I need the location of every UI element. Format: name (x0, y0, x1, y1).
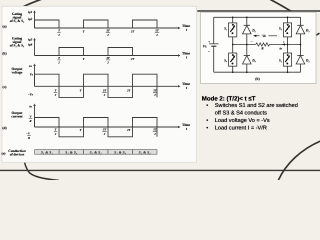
svg-text:T: T (83, 30, 85, 34)
switch S4 (224, 53, 237, 66)
svg-text:•: • (206, 126, 208, 132)
node top rail / S1 branch (232, 17, 234, 19)
node a vo annotation (251, 34, 285, 44)
switch S3 (279, 23, 292, 37)
svg-text:Load current I = -V/R: Load current I = -V/R (215, 125, 267, 132)
svg-text:of S₃ & S₄: of S₃ & S₄ (10, 44, 25, 48)
svg-text:S₃ & S₄: S₃ & S₄ (114, 150, 126, 154)
decorative top-left curve (23, 0, 43, 7)
waveform figure white box (2, 6, 197, 162)
diode D3 (296, 25, 310, 34)
plot d: y-axis (34, 105, 36, 127)
slide background (0, 0, 320, 180)
svg-text:R: R (29, 119, 31, 123)
svg-text:2T: 2T (126, 128, 131, 132)
node mid rail / D3-D2 branch (300, 44, 302, 46)
wire S4 branch (232, 45, 234, 73)
plot a: x-axis (35, 27, 180, 29)
tick labels plot c (54, 88, 157, 97)
svg-text:T: T (80, 128, 82, 132)
node top rail / D1 branch (246, 17, 248, 19)
plot a: y-axis (34, 12, 36, 28)
svg-text:5T: 5T (153, 88, 157, 92)
svg-text:S₁ & S₂: S₁ & S₂ (139, 150, 151, 154)
plot b: x-axis (35, 55, 180, 57)
svg-text:D₄: D₄ (251, 59, 256, 63)
node mid rail / D1-D4 branch (246, 44, 248, 46)
plot b: gating waveform S3S4 (59, 48, 133, 56)
svg-text:T: T (58, 29, 60, 33)
node b (right leg midpoint) (287, 44, 289, 46)
wire mid rail left (233, 44, 256, 46)
switch S1 (224, 23, 237, 37)
axis arrowheads (33, 10, 180, 128)
svg-text:current: current (11, 115, 23, 119)
wire D2 branch (300, 45, 302, 73)
svg-text:•: • (206, 103, 208, 109)
plot c: x-axis (35, 85, 180, 87)
top rule right of figure (197, 10, 320, 12)
svg-text:S₄: S₄ (224, 58, 227, 62)
svg-text:5T: 5T (155, 29, 159, 33)
svg-text:R: R (28, 136, 30, 140)
svg-text:D₂: D₂ (305, 59, 310, 63)
decorative right-edge dash (313, 33, 319, 37)
wire battery top (213, 17, 215, 44)
svg-text:off S3 & S4 conducts: off S3 & S4 conducts (215, 110, 267, 117)
svg-text:D₃: D₃ (305, 29, 310, 33)
-V/R fraction label (26, 132, 31, 141)
wire D4 branch (246, 45, 248, 73)
svg-text:i​g1: i​g1 (28, 10, 33, 14)
svg-text:of devices: of devices (10, 152, 25, 156)
svg-text:Mode 2: (T/2)< t ≤T: Mode 2: (T/2)< t ≤T (202, 96, 256, 103)
tick labels plot a (57, 29, 159, 37)
bottom-right curve (278, 141, 320, 181)
node a (left leg midpoint) (232, 44, 234, 46)
plot d: output current waveform (35, 118, 158, 137)
wire D1 branch (246, 17, 248, 44)
svg-text:−V​s: −V​s (28, 92, 34, 96)
diode D1 (243, 25, 256, 34)
svg-text:S₃ & S₄: S₃ & S₄ (65, 150, 77, 154)
tick labels plot d (54, 128, 157, 137)
plot d: x-axis (35, 126, 180, 128)
svg-text:V​o: V​o (262, 34, 266, 38)
node bottom rail / D4 branch (246, 71, 248, 73)
plot b: y-axis (34, 40, 36, 56)
svg-text:3T: 3T (105, 29, 110, 33)
svg-text:Load voltage Vo = -Vs: Load voltage Vo = -Vs (215, 117, 270, 124)
svg-text:2T: 2T (130, 30, 135, 34)
diode D4 (243, 56, 256, 65)
svg-text:2T: 2T (130, 57, 135, 61)
wire mid rail right (269, 44, 300, 46)
wire top rail (214, 16, 301, 18)
svg-text:i​o: i​o (29, 104, 32, 108)
svg-text:i​g3: i​g3 (28, 38, 33, 42)
svg-text:T: T (58, 56, 60, 60)
wire bottom rail (214, 71, 301, 73)
svg-text:2T: 2T (126, 89, 131, 93)
svg-text:voltage: voltage (12, 71, 23, 75)
left row labels (2, 12, 26, 156)
node top rail / S3 branch (287, 17, 289, 19)
svg-text:S₁: S₁ (224, 27, 227, 31)
wire D3 branch (300, 17, 302, 44)
svg-text:3T: 3T (102, 128, 107, 132)
svg-text:T: T (55, 88, 57, 92)
svg-text:−: − (251, 40, 253, 44)
Time t labels (182, 24, 190, 131)
battery Vs (203, 40, 219, 54)
svg-text:5T: 5T (153, 128, 157, 132)
text block (202, 96, 298, 132)
node bottom rail / S4 branch (232, 71, 234, 73)
y axis value labels (28, 10, 34, 108)
svg-text:T: T (83, 57, 85, 61)
plot c: y-axis (34, 65, 36, 86)
svg-text:T: T (55, 128, 57, 132)
svg-text:D₁: D₁ (251, 29, 256, 33)
svg-text:3T: 3T (105, 56, 110, 60)
svg-text:i​o: i​o (280, 47, 283, 51)
bottom-left big curve (23, 157, 59, 181)
diode D2 (296, 56, 310, 65)
resistor R (256, 43, 270, 51)
svg-text:+: + (208, 40, 210, 44)
svg-text:+: + (283, 40, 285, 44)
svg-text:i​g4: i​g4 (28, 43, 33, 47)
decorative top-right curve (270, 0, 291, 11)
wire S3 branch (287, 17, 289, 44)
plot c: output voltage waveform (35, 74, 158, 97)
plot a: gating waveform S1S2 (35, 20, 158, 28)
svg-text:S₁ & S₂: S₁ & S₂ (41, 150, 53, 154)
tick labels plot b (57, 56, 134, 64)
circuit panel (201, 12, 317, 83)
svg-text:3T: 3T (102, 88, 107, 92)
node bottom rail / S2 branch (287, 71, 289, 73)
bottom dark rule (0, 169, 320, 171)
V/R fraction label (29, 114, 32, 123)
svg-text:v​o: v​o (29, 64, 32, 68)
svg-text:Switches S1 and S2 are switche: Switches S1 and S2 are switched (215, 102, 298, 109)
svg-text:V​s: V​s (203, 45, 207, 49)
svg-text:i​g2: i​g2 (28, 17, 33, 21)
node b io annotation (280, 43, 286, 50)
wire S1 branch (232, 17, 234, 44)
svg-text:•: • (206, 118, 208, 124)
svg-text:T: T (80, 89, 82, 93)
wire S2 branch (287, 45, 289, 73)
wire battery bottom (213, 46, 215, 72)
switch S2 (279, 53, 292, 66)
svg-text:of S₁ & S₂: of S₁ & S₂ (10, 19, 24, 23)
conduction of devices cells (35, 150, 157, 155)
svg-text:S₁ & S₂: S₁ & S₂ (90, 150, 102, 154)
